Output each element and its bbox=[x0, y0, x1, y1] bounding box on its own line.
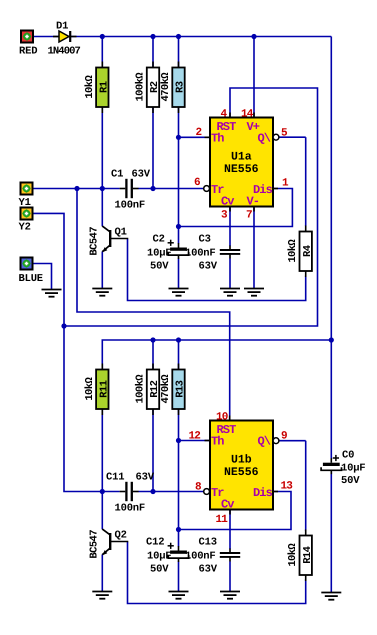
svg-text:10kΩ: 10kΩ bbox=[287, 239, 299, 263]
junction top rail at R3 bbox=[176, 34, 181, 39]
svg-text:50V: 50V bbox=[341, 475, 360, 487]
junction Th12 at R13 column bbox=[176, 438, 181, 443]
svg-text:14: 14 bbox=[241, 109, 254, 121]
connector Y1 bbox=[19, 183, 33, 210]
svg-text:R11: R11 bbox=[99, 380, 111, 397]
wire Q out pin 5 to R4 bbox=[279, 136, 306, 138]
connector RED bbox=[19, 31, 37, 58]
svg-text:C2: C2 bbox=[153, 234, 165, 246]
svg-text:100kΩ: 100kΩ bbox=[135, 374, 147, 404]
svg-text:11: 11 bbox=[216, 514, 229, 526]
capacitor C11 100nF 63V bbox=[106, 472, 155, 515]
ground Q1 emitter bbox=[92, 289, 112, 296]
svg-text:50V: 50V bbox=[150, 261, 169, 273]
connector BLUE bbox=[19, 258, 43, 286]
junction Th at R3 column bbox=[176, 135, 181, 140]
svg-text:U1a: U1a bbox=[231, 151, 252, 164]
wire R1 top feed bbox=[101, 37, 103, 68]
svg-text:C3: C3 bbox=[199, 234, 211, 246]
junction lower trigger at R11/Q2 bbox=[100, 489, 105, 494]
svg-text:RED: RED bbox=[19, 46, 37, 58]
svg-text:Th: Th bbox=[211, 435, 224, 449]
svg-text:C0: C0 bbox=[342, 450, 354, 462]
ground C13 bbox=[220, 592, 240, 599]
svg-text:1N4007: 1N4007 bbox=[48, 46, 81, 58]
junction lower rail at main rail bbox=[329, 337, 334, 342]
wire V- pin 7 to ground bbox=[253, 207, 255, 289]
capacitor C3 100nF 63V bbox=[185, 234, 240, 273]
svg-text:10kΩ: 10kΩ bbox=[287, 543, 299, 567]
svg-text:10kΩ: 10kΩ bbox=[84, 377, 96, 401]
wire Q1 emitter to ground bbox=[101, 252, 103, 289]
ground C2 bbox=[169, 289, 189, 296]
resistor R3 bbox=[160, 62, 187, 114]
wire C12 top bbox=[178, 530, 180, 547]
wire R14 bottom to Q2 base bbox=[128, 542, 306, 604]
svg-text:C11: C11 bbox=[106, 472, 124, 484]
svg-text:9: 9 bbox=[281, 431, 287, 443]
svg-text:100nF: 100nF bbox=[185, 248, 216, 260]
junction lower trigger at R12 bbox=[150, 489, 155, 494]
svg-text:Q2: Q2 bbox=[115, 530, 127, 542]
svg-text:7: 7 bbox=[246, 210, 252, 222]
wire Dis pin 13 loop bbox=[179, 492, 292, 530]
svg-text:BLUE: BLUE bbox=[19, 273, 43, 285]
wire BLUE to ground bbox=[32, 264, 52, 290]
junction Dis13/C12 bbox=[176, 527, 181, 532]
svg-text:12: 12 bbox=[189, 431, 201, 443]
wire R13 feed bbox=[178, 340, 180, 370]
svg-text:Dis: Dis bbox=[253, 486, 273, 500]
resistor R11 bbox=[84, 364, 111, 416]
svg-text:100nF: 100nF bbox=[185, 551, 216, 563]
wire R11 bottom / Q2 collector bbox=[101, 409, 103, 529]
svg-text:V-: V- bbox=[247, 195, 260, 209]
wire Y1 trigger line bbox=[33, 188, 120, 190]
capacitor C12 10uF 50V bbox=[146, 537, 189, 576]
wire Cv pin 11 to C13 bbox=[229, 510, 231, 550]
svg-text:Q\: Q\ bbox=[258, 132, 271, 146]
junction Y1 line at R1/Q1 bbox=[100, 186, 105, 191]
svg-text:R14: R14 bbox=[302, 546, 314, 563]
wire lower trigger line bbox=[139, 491, 204, 493]
wire C0 to ground bbox=[330, 472, 332, 593]
junction Y1 line branch bbox=[74, 186, 79, 191]
wire C2 top bbox=[178, 227, 180, 244]
svg-text:10µF: 10µF bbox=[341, 463, 365, 475]
wire Dis pin 1 loop bbox=[179, 189, 293, 227]
junction lower rail at R13 bbox=[176, 337, 181, 342]
svg-text:C13: C13 bbox=[199, 537, 217, 549]
wire C3 to ground bbox=[229, 259, 231, 289]
wire Cv pin 3 to C3 bbox=[229, 207, 231, 247]
wire V+ rail top bbox=[33, 36, 59, 38]
wire R4 bottom to Q1 base bbox=[128, 239, 306, 301]
svg-text:50V: 50V bbox=[150, 564, 169, 576]
svg-text:Cv: Cv bbox=[221, 195, 234, 209]
wire R12 bottom bbox=[152, 409, 154, 492]
junction Y2 line bbox=[61, 323, 66, 328]
svg-text:6: 6 bbox=[194, 177, 200, 189]
ground Q2 emitter bbox=[92, 592, 112, 599]
op-amp U1a NE556 (timer) bbox=[204, 113, 279, 212]
resistor R14 bbox=[287, 530, 314, 582]
svg-text:63V: 63V bbox=[199, 564, 218, 576]
svg-text:10kΩ: 10kΩ bbox=[84, 75, 96, 99]
resistor R12 bbox=[135, 364, 162, 416]
svg-text:C12: C12 bbox=[146, 537, 164, 549]
junction lower rail at R12 bbox=[150, 337, 155, 342]
wire Th pin 12 bbox=[179, 440, 211, 442]
wire Y2 branch down to U1b trigger bbox=[64, 326, 120, 492]
resistor R13 bbox=[160, 364, 187, 416]
capacitor C2 10uF 50V bbox=[147, 234, 189, 273]
wire C12 bottom to ground bbox=[178, 562, 180, 592]
wire C13 to ground bbox=[229, 562, 231, 592]
ground C3 bbox=[220, 289, 240, 296]
wire R2 top feed bbox=[152, 37, 154, 68]
svg-text:63V: 63V bbox=[132, 169, 151, 181]
svg-text:63V: 63V bbox=[136, 472, 155, 484]
svg-text:BC547: BC547 bbox=[89, 227, 101, 256]
wire R2 bottom bbox=[152, 106, 154, 189]
transistor Q2 BC547 bbox=[89, 529, 129, 558]
svg-text:Th: Th bbox=[211, 132, 224, 146]
transistor Q1 BC547 bbox=[89, 226, 129, 255]
resistor R1 bbox=[84, 62, 111, 114]
svg-text:10: 10 bbox=[216, 412, 228, 424]
junction top rail at R2 bbox=[150, 34, 155, 39]
svg-text:NE556: NE556 bbox=[224, 163, 259, 176]
svg-text:470kΩ: 470kΩ bbox=[160, 72, 172, 102]
ground V- pin 7 bbox=[244, 289, 264, 296]
resistor R4 bbox=[287, 226, 314, 278]
wire V+ rail right side down to C0 bbox=[330, 37, 332, 460]
junction top rail at R1 bbox=[100, 34, 105, 39]
capacitor C0 10uF 50V bbox=[321, 450, 365, 488]
svg-text:100kΩ: 100kΩ bbox=[135, 72, 147, 102]
wire V+ pin 14 drop bbox=[253, 37, 255, 118]
wire R12 feed bbox=[152, 340, 154, 370]
svg-text:NE556: NE556 bbox=[224, 466, 259, 479]
op-amp U1b NE556 (timer) bbox=[204, 416, 279, 515]
wire Q2 emitter to ground bbox=[101, 555, 103, 592]
wire R1 bottom / Q1 collector bbox=[101, 106, 103, 226]
capacitor C1 100nF 63V bbox=[111, 169, 151, 212]
wire C2 bottom to ground bbox=[178, 259, 180, 289]
ground C12 bbox=[169, 592, 189, 599]
junction top rail at pin 14 bbox=[251, 34, 256, 39]
svg-text:D1: D1 bbox=[56, 21, 68, 33]
junction Dis/C2 bbox=[176, 224, 181, 229]
svg-text:Q\: Q\ bbox=[258, 435, 271, 449]
wire R3 / Th / Dis column bbox=[178, 106, 180, 227]
svg-text:Cv: Cv bbox=[221, 498, 234, 512]
wire lower supply rail bbox=[102, 340, 331, 370]
svg-text:BC547: BC547 bbox=[89, 530, 101, 559]
svg-text:Q1: Q1 bbox=[115, 227, 127, 239]
svg-text:470kΩ: 470kΩ bbox=[160, 374, 172, 404]
svg-text:100nF: 100nF bbox=[115, 503, 146, 515]
svg-text:R1: R1 bbox=[99, 81, 111, 93]
ground supply rail bbox=[321, 593, 341, 600]
resistor R2 bbox=[135, 62, 162, 114]
svg-text:10µF: 10µF bbox=[147, 248, 171, 260]
svg-text:10µF: 10µF bbox=[147, 551, 171, 563]
svg-text:63V: 63V bbox=[199, 261, 218, 273]
svg-text:U1b: U1b bbox=[231, 454, 252, 467]
svg-text:C1: C1 bbox=[111, 169, 123, 181]
svg-text:R3: R3 bbox=[175, 81, 187, 93]
wire Th pin 2 bbox=[179, 136, 211, 138]
ground BLUE bbox=[42, 290, 62, 297]
svg-text:100nF: 100nF bbox=[115, 200, 146, 212]
connector Y2 bbox=[19, 208, 33, 234]
svg-text:2: 2 bbox=[196, 127, 202, 139]
capacitor C13 100nF 63V bbox=[185, 537, 240, 576]
svg-text:13: 13 bbox=[281, 481, 294, 493]
wire R13 / Th / Dis column lower bbox=[178, 409, 180, 530]
svg-text:Y2: Y2 bbox=[19, 222, 31, 234]
wire R3 top feed bbox=[178, 37, 180, 68]
svg-text:R4: R4 bbox=[302, 245, 314, 257]
svg-text:R13: R13 bbox=[175, 380, 187, 397]
junction Y1 line at R2 bbox=[150, 186, 155, 191]
wire Y2 to U1a RST loop bbox=[33, 88, 318, 326]
diode D1 1N4007 bbox=[48, 21, 81, 58]
wire Q out pin 9 to R14 bbox=[279, 440, 306, 442]
wire Y1 branch to U1b RST bbox=[77, 189, 230, 421]
